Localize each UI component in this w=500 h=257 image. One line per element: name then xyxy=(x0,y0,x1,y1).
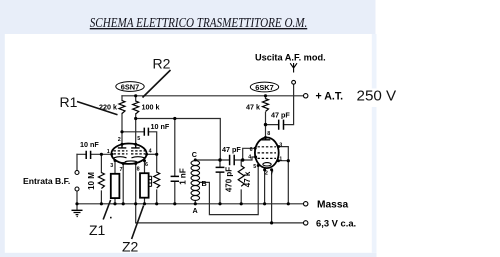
svg-text:Entrata B.F.: Entrata B.F. xyxy=(23,176,70,186)
svg-text:Z2: Z2 xyxy=(122,239,139,255)
svg-text:4: 4 xyxy=(248,154,251,160)
svg-text:+ A.T.: + A.T. xyxy=(316,91,344,103)
svg-text:5: 5 xyxy=(137,136,140,142)
svg-text:6: 6 xyxy=(250,147,253,153)
svg-text:47 k: 47 k xyxy=(243,171,252,187)
svg-text:R1: R1 xyxy=(60,94,78,110)
svg-text:47 k: 47 k xyxy=(246,103,260,112)
svg-text:250 V: 250 V xyxy=(357,88,398,105)
svg-text:10 nF: 10 nF xyxy=(151,122,170,131)
svg-text:1: 1 xyxy=(279,156,282,162)
svg-text:1 nF: 1 nF xyxy=(178,168,187,185)
svg-text:SCHEMA ELETTRICO TRASMETTITORE: SCHEMA ELETTRICO TRASMETTITORE O.M. xyxy=(90,15,308,30)
svg-text:100 k: 100 k xyxy=(142,103,160,112)
svg-text:7: 7 xyxy=(120,167,123,173)
svg-text:10 M: 10 M xyxy=(87,172,96,190)
svg-text:6,3 V c.a.: 6,3 V c.a. xyxy=(316,218,356,229)
svg-text:6SN7: 6SN7 xyxy=(121,82,140,91)
svg-text:2: 2 xyxy=(118,137,121,143)
svg-text:8: 8 xyxy=(267,131,270,137)
svg-text:C: C xyxy=(192,150,197,159)
svg-text:3: 3 xyxy=(279,142,282,148)
svg-text:1: 1 xyxy=(107,149,110,155)
svg-text:4: 4 xyxy=(149,148,152,154)
svg-text:47 pF: 47 pF xyxy=(222,145,241,154)
svg-text:3: 3 xyxy=(110,163,113,169)
svg-text:R2: R2 xyxy=(153,56,171,72)
svg-text:470 pF: 470 pF xyxy=(225,167,234,192)
svg-text:8: 8 xyxy=(137,167,140,173)
svg-text:Massa: Massa xyxy=(317,200,348,211)
svg-text:Uscita A.F. mod.: Uscita A.F. mod. xyxy=(255,53,326,63)
svg-text:5: 5 xyxy=(253,164,256,170)
svg-text:B: B xyxy=(202,179,207,188)
svg-text:47 pF: 47 pF xyxy=(271,111,290,120)
svg-text:A: A xyxy=(193,206,198,215)
svg-text:7: 7 xyxy=(271,170,274,176)
svg-text:10 nF: 10 nF xyxy=(80,140,99,149)
svg-text:Z1: Z1 xyxy=(89,222,106,238)
svg-text:6SK7: 6SK7 xyxy=(255,83,274,92)
svg-text:2: 2 xyxy=(265,171,268,177)
svg-text:6: 6 xyxy=(145,162,148,168)
